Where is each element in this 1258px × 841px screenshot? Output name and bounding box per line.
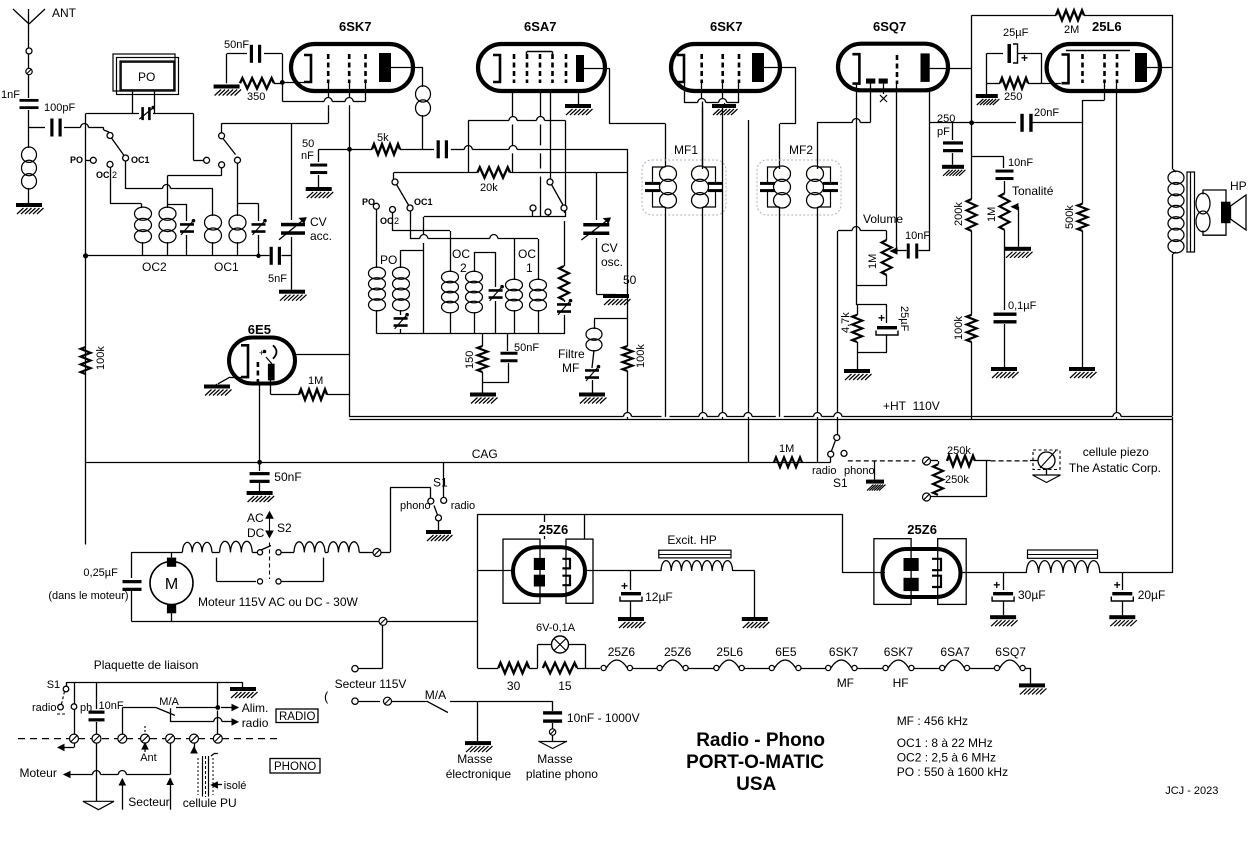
resistor 50 oscillator cathode — [564, 211, 566, 213]
svg-text:200k: 200k — [953, 202, 965, 226]
ground under tone wiper — [1005, 247, 1031, 251]
svg-text:PO: PO — [138, 70, 155, 84]
lamp 6V-0,1A — [529, 668, 538, 670]
wire OC2 contact down — [110, 167, 112, 203]
svg-text:cellule PU: cellule PU — [183, 796, 237, 810]
capacitor 25uF electrolytic cathode — [857, 304, 887, 306]
svg-text:25L6: 25L6 — [1092, 19, 1122, 34]
svg-text:cellule piezo: cellule piezo — [1083, 445, 1149, 459]
heater 25Z6 first — [601, 665, 606, 670]
phono dashed line — [848, 460, 916, 462]
chassis ground plaquette — [83, 801, 114, 809]
svg-text:25Z6: 25Z6 — [907, 522, 937, 537]
ground under antenna coil — [16, 203, 42, 207]
wire OC1 contact down to OC1 right coil — [237, 163, 239, 216]
contact phono of S1 — [841, 450, 847, 456]
internal connection line 6SA7 — [527, 51, 553, 53]
svg-text:électronique: électronique — [446, 767, 512, 781]
svg-text:AC: AC — [247, 511, 264, 525]
capacitor 12uF — [630, 571, 632, 590]
25Z6-2 anode squares — [904, 558, 919, 571]
variable capacitor CV osc — [596, 173, 598, 221]
wire cathode-G3 base wire with pin hops — [282, 82, 284, 101]
wire 6SA7 grid lead x540 down — [540, 91, 542, 117]
cathode of 6SA7 — [493, 55, 500, 82]
svg-text:2: 2 — [460, 261, 467, 275]
S1 AF switch arm — [832, 440, 836, 451]
svg-text:OC1: OC1 — [214, 260, 239, 274]
resistor 200k — [967, 199, 977, 231]
arrow Alim. — [221, 707, 233, 709]
svg-text:100k: 100k — [635, 344, 647, 368]
wire MF2 secondary bottom to CAG — [817, 207, 819, 413]
hop of volume line over HT — [837, 231, 839, 413]
wire screen x722 down to HT rail — [722, 83, 724, 99]
svg-text:The Astatic Corp.: The Astatic Corp. — [1069, 461, 1161, 475]
wire diode1 to MF2 top — [870, 84, 872, 123]
svg-text:1M: 1M — [308, 375, 323, 387]
cathode of 6E5 — [241, 345, 248, 377]
S1 left arm and common — [436, 515, 442, 521]
wire power box top line — [478, 514, 843, 516]
svg-text:1M: 1M — [986, 207, 998, 222]
6E5 target cross and anode — [263, 350, 267, 354]
anode of 6SQ7 — [921, 53, 930, 82]
svg-text:25µF: 25µF — [898, 306, 910, 332]
filter choke core — [1028, 550, 1098, 558]
svg-text:OC1: OC1 — [131, 155, 150, 165]
ground under 6E5 — [204, 385, 230, 389]
svg-text:Ant: Ant — [140, 752, 157, 764]
wire volume bottom — [886, 275, 888, 286]
inductor osc OC1 left coil — [514, 239, 516, 280]
wire filter output to HT riser — [1122, 572, 1172, 574]
capacitor 20uF — [1122, 573, 1124, 590]
resistor 5k — [350, 149, 373, 151]
inductor antenna coil — [22, 147, 37, 162]
resistor 15 heater — [543, 663, 577, 673]
switch S antenna band - common contact — [107, 133, 113, 139]
svg-text:Masse: Masse — [537, 752, 573, 766]
capacitor 10nF plaquette — [96, 682, 98, 709]
volume wiper arrow — [891, 248, 898, 254]
wire 200k to 100k — [971, 231, 973, 315]
svg-text:OC1 : 8 à 22 MHz: OC1 : 8 à 22 MHz — [897, 736, 993, 750]
svg-text:Filtre: Filtre — [558, 347, 585, 361]
wire contact x548 stub — [548, 215, 550, 217]
S2 dashed link — [269, 543, 271, 580]
svg-text:phono: phono — [844, 465, 875, 477]
resistor 250k shunt — [938, 461, 940, 464]
grid 1 of 25L6 — [1081, 54, 1084, 83]
ground at 350 resistor — [214, 85, 240, 89]
svg-text:OC: OC — [518, 247, 536, 261]
wire 100k to HT rail — [971, 342, 973, 419]
svg-text:OC: OC — [96, 170, 110, 180]
choke motor 4 — [328, 542, 359, 552]
diode plate 2 of 6SQ7 — [879, 79, 888, 84]
svg-text:25Z6: 25Z6 — [539, 522, 569, 537]
cathode of 6SK7 RF — [304, 55, 311, 82]
wire grid1 pin through to MF1 — [701, 83, 703, 99]
svg-text:6SA7: 6SA7 — [524, 19, 557, 34]
osc switch left arm — [397, 185, 409, 206]
svg-text:HF: HF — [893, 676, 909, 690]
oscillator band switch right - common contact — [547, 179, 553, 185]
wire x748 down to CAG — [748, 120, 750, 413]
dashed line to piezo — [991, 460, 1030, 462]
svg-text:Secteur: Secteur — [128, 795, 169, 809]
svg-text:Excit. HP: Excit. HP — [667, 533, 716, 547]
trimmer capacitor OC2 — [186, 204, 188, 221]
25Z6-1 cathodes — [562, 559, 570, 569]
wire HT corner down right side — [1172, 417, 1174, 569]
svg-text:Moteur: Moteur — [20, 766, 57, 780]
svg-text:CV: CV — [310, 215, 327, 229]
svg-text:acc.: acc. — [310, 229, 332, 243]
switch arm RF grid — [223, 139, 236, 155]
wire PO-R top feed — [400, 250, 402, 268]
contact left (PO) of RF switch — [204, 157, 210, 163]
svg-text:10nF: 10nF — [99, 700, 124, 712]
svg-text:PO: PO — [380, 253, 397, 267]
wire phono contact to motor line — [430, 488, 432, 499]
svg-text:20k: 20k — [480, 182, 498, 194]
output transformer core — [1187, 172, 1195, 252]
contact phono S1 left — [428, 498, 434, 504]
plaquette terminal strip dashed line — [18, 738, 281, 740]
wire moteur arrow 2 line — [170, 743, 172, 774]
wire S2 bypass lower path — [216, 558, 218, 582]
svg-text:DC: DC — [247, 526, 265, 540]
contacts of right osc switch — [530, 205, 536, 211]
svg-text:Masse: Masse — [457, 752, 493, 766]
connector circle on antenna lead — [26, 48, 32, 54]
resistor 250 25L6 cathode — [986, 53, 988, 83]
wire 6E5 anode line — [295, 354, 350, 356]
wire 4.7k bottom join — [857, 342, 859, 352]
junction dot detector — [969, 120, 974, 125]
feedback line 2M — [972, 15, 1056, 17]
svg-text:0,1µF: 0,1µF — [1008, 300, 1037, 312]
svg-text:1: 1 — [526, 261, 533, 275]
svg-text:+: + — [878, 311, 885, 325]
plaquette ground top right — [242, 682, 244, 687]
svg-text:2: 2 — [394, 216, 399, 226]
inductor OC1 right coil — [229, 215, 246, 230]
svg-text:1M: 1M — [867, 254, 879, 269]
svg-text:S1: S1 — [833, 476, 848, 490]
wire 6SK7 MF anode to MF2 — [764, 67, 796, 69]
svg-text:JCJ - 2023: JCJ - 2023 — [1165, 785, 1218, 797]
wire 6SQ7 anode right — [930, 68, 972, 70]
capacitor 30uF — [1003, 573, 1005, 590]
svg-text:20nF: 20nF — [1034, 107, 1059, 119]
trimmer osc OC2 — [495, 252, 497, 287]
transformer MF1 box — [642, 160, 726, 215]
terminal 5 — [166, 734, 175, 743]
contact radio S1 left — [441, 497, 447, 503]
svg-text:6SQ7: 6SQ7 — [995, 645, 1026, 659]
svg-text:6SK7: 6SK7 — [884, 645, 914, 659]
svg-text:(dans le moteur): (dans le moteur) — [48, 590, 128, 602]
cellule PU shielded pair — [194, 743, 196, 750]
contact PO of antenna switch — [90, 157, 96, 163]
svg-text:Radio - Phono: Radio - Phono — [696, 730, 825, 751]
chassis ground under piezo — [1046, 469, 1048, 475]
wire 6SQ7 cathode down — [856, 84, 858, 286]
wire PO frame left lead — [132, 91, 134, 114]
wire osc OC2 contact down — [392, 213, 394, 232]
ground under 30uF — [990, 615, 1016, 619]
cellule piezo symbol — [1033, 450, 1060, 470]
wire 6SA7 cathode to ground — [578, 91, 580, 104]
resistor 100k AF — [967, 315, 977, 342]
capacitor 0,25uF motor — [131, 552, 133, 578]
capacitor 10nF - 1000V — [552, 701, 554, 711]
ground under 4.7k — [844, 369, 870, 373]
potentiometer 1M tone — [1000, 193, 1010, 229]
svg-text:pF: pF — [937, 126, 950, 138]
cathode of 6SQ7 — [852, 54, 859, 83]
tube 6SK7 MF amplifier envelope — [671, 44, 780, 91]
svg-text:MF1: MF1 — [674, 143, 698, 157]
variable capacitor CV acc — [291, 123, 293, 220]
svg-text:30µF: 30µF — [1018, 588, 1046, 602]
heater 6SK7 HF — [883, 665, 888, 670]
svg-text:HP: HP — [1230, 179, 1247, 193]
wire PO frame right lead — [154, 91, 156, 114]
frame antenna PO (cadre) — [113, 54, 175, 91]
svg-text:MF: MF — [837, 676, 854, 690]
tube 6SA7 converter envelope — [478, 44, 605, 91]
ground at heater chain end — [1019, 683, 1045, 687]
filter choke winding — [1003, 572, 1026, 574]
wire 25L6 screen to HT — [1116, 83, 1118, 413]
svg-text:25Z6: 25Z6 — [608, 645, 636, 659]
svg-text:+: + — [259, 348, 264, 358]
wire PO line left to vertical — [86, 113, 139, 115]
switch S RF grid - common contact — [219, 133, 225, 139]
ground under 150 — [470, 393, 496, 397]
svg-text:isolé: isolé — [224, 780, 247, 792]
label 25Z6 first — [536, 522, 571, 536]
svg-text:+: + — [621, 579, 628, 593]
contact OC2 osc switch — [390, 207, 396, 213]
connector phono return — [923, 493, 931, 501]
svg-text:25µF: 25µF — [1003, 27, 1029, 39]
svg-text:6E5: 6E5 — [248, 322, 271, 337]
heater 6SQ7 — [994, 665, 999, 670]
choke motor 1 — [182, 542, 211, 552]
svg-text:50nF: 50nF — [274, 470, 301, 484]
switch S2 upper contacts — [257, 550, 262, 555]
svg-text:15: 15 — [558, 679, 572, 693]
grid 3 of 25L6 — [1116, 54, 1119, 83]
ground under 0,1uF — [991, 367, 1017, 371]
tube 6E5 envelope — [229, 338, 295, 384]
bus +HT double line — [350, 416, 624, 418]
svg-text:PORT-O-MATIC: PORT-O-MATIC — [686, 752, 824, 773]
svg-text:30: 30 — [507, 679, 521, 693]
node 6E5 grid junction on CAG — [257, 460, 262, 465]
MF2 primary winding — [768, 167, 780, 207]
wire Excit HP right to ground — [754, 571, 756, 617]
label 25Z6 second — [905, 522, 940, 536]
grids of 6SA7 (5 dashed) — [513, 54, 516, 83]
wire 6SA7 grid1 lead down — [512, 91, 514, 117]
inductor OC2 right coil — [159, 207, 176, 220]
svg-text:CAG: CAG — [472, 447, 498, 461]
wire power box left edge — [477, 514, 479, 668]
capacitor 20nF coupling — [972, 122, 1016, 124]
connector motor line right — [373, 549, 381, 557]
terminal 1 moteur — [70, 734, 79, 743]
svg-text:M/A: M/A — [425, 688, 446, 702]
svg-text:osc.: osc. — [601, 255, 623, 269]
secteur terminal 2 — [352, 698, 358, 704]
ground under Filtre MF — [579, 393, 605, 397]
svg-text:Secteur 115V: Secteur 115V — [335, 677, 407, 691]
svg-text:+: + — [993, 578, 1000, 592]
svg-text:OC2: OC2 — [142, 260, 167, 274]
wire 25Z6-1 right to 12uF — [585, 570, 631, 572]
inductor 6SK7 anode RF choke — [416, 86, 431, 102]
terminal 2 — [92, 734, 101, 743]
resistor 1M CAG — [774, 457, 802, 467]
svg-text:50nF: 50nF — [514, 342, 539, 354]
grid of 6SQ7 — [896, 55, 899, 84]
headphone terminal ph — [74, 682, 76, 704]
wire 6SQ7 anode up to feedback line — [971, 15, 973, 123]
grid 1 of 6SK7 RF (dashed) — [327, 54, 330, 83]
contact PO osc switch — [373, 203, 379, 209]
switch arm antenna band — [112, 138, 125, 156]
grid 2 of 6SK7 RF (dashed) — [348, 54, 351, 83]
svg-text:500k: 500k — [1064, 205, 1076, 229]
svg-text:Tonalité: Tonalité — [1012, 184, 1054, 198]
wire MF1 secondary top to 6SK7 MF grid — [702, 102, 704, 170]
wire MF2 secondary top to detector — [817, 122, 819, 169]
MF2 primary capacitor — [760, 182, 775, 185]
svg-text:6V-0,1A: 6V-0,1A — [536, 622, 576, 634]
line y172 oscillator with 20k — [394, 172, 478, 174]
osc switch right arm — [552, 185, 564, 206]
svg-text:25L6: 25L6 — [716, 645, 743, 659]
svg-text:25Z6: 25Z6 — [664, 645, 692, 659]
terminal 4 Ant — [141, 734, 150, 743]
wire 6SK7 cathode to left — [282, 82, 304, 84]
wire masse electronique — [477, 701, 479, 741]
connector on phono line — [923, 457, 931, 465]
svg-text:OC2 : 2,5 à 6 MHz: OC2 : 2,5 à 6 MHz — [897, 751, 996, 765]
resistor 4,7k — [857, 305, 859, 315]
wire heater end to ground — [1030, 668, 1032, 683]
svg-text:50: 50 — [623, 273, 637, 287]
hop of x627 over box bottom line — [624, 413, 632, 417]
oscillator band switch left - common contact — [392, 179, 398, 185]
wire 6SK7 anode to coil — [391, 67, 423, 69]
wire oscillator vertical x627 — [627, 149, 629, 319]
wire 25L6 cathode RC to tube — [1041, 53, 1043, 83]
wire S1 radio upper contact — [834, 435, 840, 441]
ground under CV acc — [279, 290, 305, 294]
svg-text:radio: radio — [451, 500, 475, 512]
ground under 50nF CAG — [247, 491, 273, 495]
svg-text:S1: S1 — [47, 679, 60, 691]
wire 250k bottom loop — [931, 496, 987, 498]
grid 3 of 6SK7 MF — [738, 54, 741, 83]
anode of 6SK7 RF — [379, 53, 391, 82]
svg-text:S2: S2 — [277, 521, 292, 535]
diode plate 2 unused marker x — [883, 84, 885, 94]
wire motor top line — [131, 552, 182, 554]
inductor osc OC2 right coil — [466, 271, 483, 283]
heater 25Z6 second — [657, 665, 662, 670]
wire volume top line — [838, 230, 852, 232]
heater 25L6 — [714, 665, 719, 670]
inductor OC1 left coil — [205, 215, 222, 230]
contact OC1 of RF switch — [235, 157, 241, 163]
MF2 secondary capacitor — [823, 182, 838, 185]
svg-text:RADIO: RADIO — [279, 711, 315, 723]
svg-text:M/A: M/A — [159, 696, 179, 708]
wire contact x533 stub — [532, 211, 534, 217]
svg-text:M: M — [165, 576, 178, 593]
svg-text:radio: radio — [32, 702, 56, 714]
wire 6SA7 anode to MF1 — [584, 68, 610, 70]
svg-text:10nF - 1000V: 10nF - 1000V — [567, 711, 640, 725]
svg-text:CV: CV — [601, 241, 618, 255]
inductor osc PO right coil — [393, 267, 410, 279]
choke motor 2 — [220, 541, 253, 552]
wire line y239 OC1 feed — [410, 211, 412, 239]
svg-text:Volume: Volume — [863, 212, 903, 226]
connector under 10nF — [549, 729, 555, 735]
svg-text:PO: PO — [362, 197, 375, 207]
resistor 150 — [482, 334, 484, 346]
transformer MF2 box — [757, 160, 841, 215]
anode of 25L6 — [1135, 53, 1147, 82]
trimmer capacitor OC1 — [238, 203, 259, 205]
speaker HP — [1221, 202, 1231, 224]
connector motor bottom — [379, 617, 387, 625]
terminal 7 — [213, 734, 222, 743]
svg-text:platine phono: platine phono — [526, 767, 598, 781]
wire common up to grid line — [221, 123, 223, 133]
bus CAG line — [86, 462, 831, 464]
trimmer Filtre MF — [592, 350, 594, 368]
wire 5k line to right with hops — [464, 146, 472, 150]
wire antenna line to band switch, hop over vertical — [64, 127, 81, 129]
wire osc PO contact down — [376, 209, 378, 268]
25Z6-2 cathodes — [932, 559, 941, 570]
chassis masse platine phono — [539, 741, 568, 743]
wire big box left edge / screen lead — [349, 149, 351, 417]
trimmer under 50 resistor — [564, 300, 566, 302]
cathode of 25L6 — [1062, 55, 1069, 84]
svg-text:Moteur 115V AC ou DC - 30W: Moteur 115V AC ou DC - 30W — [198, 595, 359, 609]
resistor 30 heater — [498, 663, 529, 673]
wire transformer bottom to HT rail — [1172, 254, 1174, 416]
ground under CV osc — [603, 294, 629, 298]
wire line y217 — [424, 216, 566, 218]
wire 6SK7 MF cathode base wire — [684, 82, 686, 103]
svg-text:PO: PO — [70, 155, 83, 165]
wire grid2 down to screen node — [349, 83, 351, 97]
wire 10nF to anode lead vertical — [919, 250, 930, 252]
MF1 primary capacitor — [645, 182, 660, 185]
